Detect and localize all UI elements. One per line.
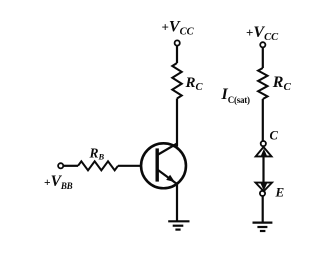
svg-text:C: C: [270, 129, 279, 143]
svg-text:E: E: [275, 185, 285, 200]
